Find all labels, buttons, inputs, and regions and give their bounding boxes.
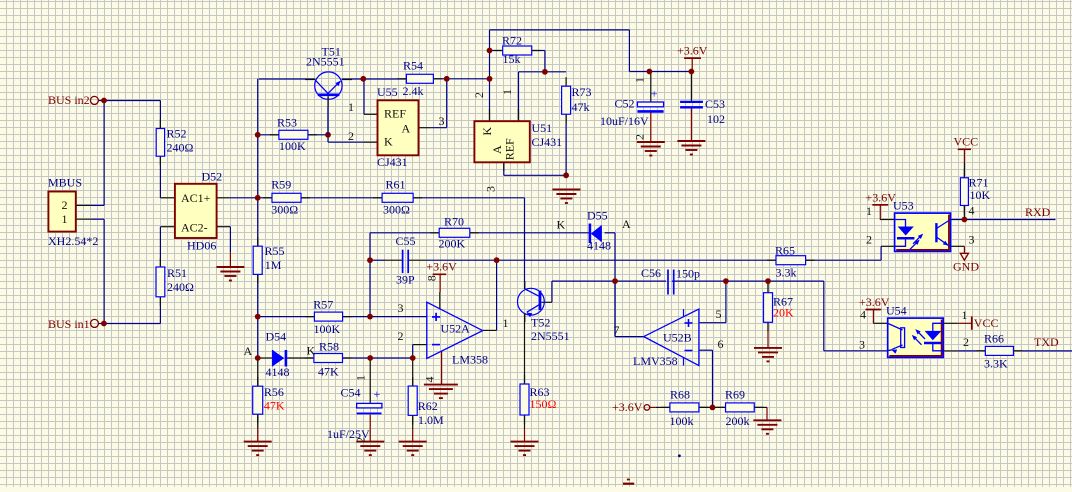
svg-text:BUS in1: BUS in1 [48, 317, 90, 331]
svg-text:2: 2 [866, 233, 872, 247]
svg-text:4: 4 [860, 308, 866, 322]
svg-text:GND: GND [953, 259, 979, 273]
svg-text:R61: R61 [386, 177, 406, 191]
svg-text:47K: 47K [318, 365, 339, 379]
svg-text:C52: C52 [615, 97, 635, 111]
svg-text:R51: R51 [167, 266, 187, 280]
svg-text:CJ431: CJ431 [377, 155, 408, 169]
svg-text:3.3k: 3.3k [776, 266, 797, 280]
svg-text:K: K [384, 135, 393, 149]
svg-text:240Ω: 240Ω [167, 280, 194, 294]
svg-text:100K: 100K [314, 322, 341, 336]
svg-text:LMV358: LMV358 [633, 354, 678, 368]
svg-text:200k: 200k [726, 414, 750, 428]
svg-text:1: 1 [62, 212, 68, 226]
svg-text:4: 4 [969, 204, 975, 218]
svg-text:XH2.54*2: XH2.54*2 [48, 234, 98, 248]
svg-text:150p: 150p [676, 267, 700, 281]
svg-text:+3.6V: +3.6V [612, 400, 643, 414]
svg-text:4148: 4148 [587, 239, 611, 253]
svg-text:150Ω: 150Ω [530, 397, 557, 411]
svg-text:REF: REF [384, 107, 406, 121]
svg-text:K: K [480, 127, 494, 136]
svg-text:1: 1 [348, 100, 354, 114]
svg-text:300Ω: 300Ω [271, 203, 298, 217]
svg-text:A: A [402, 122, 411, 136]
svg-text:C56: C56 [641, 266, 661, 280]
svg-text:100k: 100k [670, 414, 694, 428]
svg-text:K: K [307, 344, 316, 358]
svg-text:+3.6V: +3.6V [677, 44, 708, 58]
svg-text:R66: R66 [984, 332, 1004, 346]
svg-text:200K: 200K [439, 237, 466, 251]
svg-text:39P: 39P [396, 273, 415, 287]
svg-text:C54: C54 [341, 386, 361, 400]
svg-text:2N5551: 2N5551 [531, 329, 570, 343]
svg-text:R56: R56 [264, 385, 284, 399]
svg-text:6: 6 [718, 337, 724, 351]
svg-text:U52A: U52A [441, 322, 471, 336]
svg-text:47k: 47k [572, 100, 590, 114]
svg-text:CJ431: CJ431 [532, 135, 563, 149]
svg-text:2: 2 [472, 92, 486, 98]
svg-text:RXD: RXD [1025, 205, 1051, 219]
svg-text:+: + [374, 387, 381, 401]
svg-text:R73: R73 [572, 85, 592, 99]
svg-text:D55: D55 [587, 209, 608, 223]
svg-text:1: 1 [633, 77, 647, 83]
svg-text:1.0M: 1.0M [418, 413, 444, 427]
svg-text:D52: D52 [202, 170, 223, 184]
svg-text:U51: U51 [532, 121, 553, 135]
svg-text:1: 1 [962, 308, 968, 322]
svg-text:2: 2 [633, 134, 647, 140]
svg-text:+3.6V: +3.6V [866, 191, 897, 205]
svg-text:R55: R55 [265, 244, 285, 258]
svg-text:3: 3 [969, 233, 975, 247]
svg-text:2N5551: 2N5551 [306, 55, 345, 69]
svg-text:R70: R70 [444, 215, 464, 229]
svg-text:VCC: VCC [954, 135, 979, 149]
svg-text:3: 3 [859, 338, 865, 352]
svg-text:R72: R72 [502, 34, 522, 48]
svg-text:LM358: LM358 [452, 353, 488, 367]
svg-text:3.3K: 3.3K [984, 357, 1008, 371]
svg-text:K: K [557, 218, 566, 232]
svg-text:R54: R54 [403, 59, 423, 73]
svg-text:3: 3 [439, 114, 445, 128]
svg-text:2: 2 [963, 335, 969, 349]
svg-text:5: 5 [716, 307, 722, 321]
svg-text:C53: C53 [705, 97, 725, 111]
svg-text:MBUS: MBUS [48, 175, 82, 189]
svg-text:2: 2 [348, 129, 354, 143]
svg-text:1M: 1M [265, 258, 282, 272]
svg-text:10uF/16V: 10uF/16V [600, 114, 649, 128]
svg-text:U54: U54 [886, 304, 907, 318]
svg-text:R57: R57 [313, 297, 333, 311]
svg-text:47K: 47K [264, 399, 285, 413]
svg-text:3: 3 [398, 301, 404, 315]
svg-text:T52: T52 [531, 316, 550, 330]
svg-text:U52B: U52B [663, 331, 692, 345]
svg-text:REF: REF [503, 138, 517, 160]
svg-text:15k: 15k [503, 52, 521, 66]
svg-text:7: 7 [614, 323, 620, 337]
svg-text:100K: 100K [279, 139, 306, 153]
svg-text:R59: R59 [271, 177, 291, 191]
svg-text:R69: R69 [725, 388, 745, 402]
svg-text:20K: 20K [773, 306, 794, 320]
svg-text:A: A [622, 217, 631, 231]
svg-text:10K: 10K [970, 188, 991, 202]
svg-text:+3.6V: +3.6V [426, 260, 457, 274]
svg-text:8: 8 [424, 275, 438, 281]
svg-text:U53: U53 [893, 199, 914, 213]
svg-text:AC2-: AC2- [181, 221, 208, 235]
svg-text:AC1+: AC1+ [181, 191, 211, 205]
svg-text:240Ω: 240Ω [167, 141, 194, 155]
svg-text:HD06: HD06 [187, 239, 216, 253]
svg-text:102: 102 [707, 112, 725, 126]
svg-text:TXD: TXD [1034, 335, 1059, 349]
svg-text:D54: D54 [266, 330, 287, 344]
svg-text:R53: R53 [277, 116, 297, 130]
svg-text:R68: R68 [670, 388, 690, 402]
svg-text:+: + [651, 87, 658, 101]
svg-text:2: 2 [354, 437, 368, 443]
svg-text:A: A [244, 344, 253, 358]
svg-text:1: 1 [866, 204, 872, 218]
svg-text:3: 3 [484, 186, 498, 192]
svg-text:R58: R58 [319, 340, 339, 354]
svg-text:1: 1 [354, 375, 368, 381]
svg-text:R65: R65 [775, 244, 795, 258]
svg-text:2: 2 [398, 329, 404, 343]
svg-text:1: 1 [503, 316, 509, 330]
svg-text:4148: 4148 [266, 365, 290, 379]
svg-text:2.4k: 2.4k [403, 84, 424, 98]
svg-text:R62: R62 [418, 399, 438, 413]
svg-text:2: 2 [62, 198, 68, 212]
svg-text:1: 1 [500, 89, 514, 95]
svg-text:U55: U55 [377, 85, 398, 99]
svg-text:VCC: VCC [974, 316, 999, 330]
svg-text:R52: R52 [167, 127, 187, 141]
svg-text:300Ω: 300Ω [383, 203, 410, 217]
svg-text:C55: C55 [396, 234, 416, 248]
svg-text:4: 4 [423, 377, 437, 383]
svg-text:BUS in2: BUS in2 [48, 93, 90, 107]
